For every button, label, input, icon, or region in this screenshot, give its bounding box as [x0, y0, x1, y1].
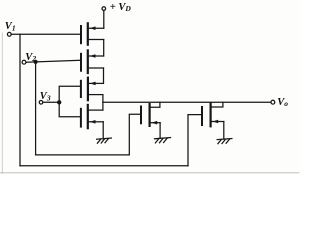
transistor T3 source arrow [90, 82, 96, 86]
wire T4 to ground [102, 122, 104, 139]
wire T2-T3 link [103, 68, 105, 83]
svg-text:V2: V2 [25, 52, 36, 63]
svg-text:+ VD: + VD [110, 2, 132, 13]
wire output node link T3-T4 [102, 95, 104, 111]
transistor T4 channel bar [87, 105, 89, 128]
wire T1 drain lead [89, 27, 104, 29]
ground G1 [97, 138, 112, 143]
wire T2 drain lead [89, 55, 104, 57]
transistor T2 source arrow [90, 54, 96, 58]
node V2 input terminal [22, 60, 26, 64]
node +VD supply terminal [102, 7, 106, 11]
wire V1 lead to T1 gate [11, 33, 80, 35]
node V1 input terminal [7, 32, 11, 36]
transistor T1 source arrow [90, 26, 96, 30]
transistor T6 channel bar [210, 104, 212, 127]
svg-text:V1: V1 [5, 21, 16, 32]
transistor T2 gate bar [80, 54, 82, 71]
wire T3 drain lead [89, 82, 103, 84]
transistor T5 source arrow [151, 121, 157, 125]
wire T3 source lead [89, 94, 103, 96]
wire T4 source lead [89, 121, 103, 123]
wire V1 rise to T6 gate [188, 115, 201, 166]
transistor T6 source arrow [212, 120, 218, 124]
transistor T1 channel bar [87, 23, 89, 44]
node V3 input terminal [39, 101, 43, 105]
transistor T4 gate bar [80, 109, 82, 127]
wire T1-T2 link [103, 40, 105, 57]
wire V3 lead [43, 101, 59, 103]
wire T6 source lead [212, 121, 224, 123]
wire T4 drain lead [89, 109, 103, 111]
page scan left border [1, 33, 3, 174]
transistor T5 gate bar [140, 107, 142, 124]
wire T5 source lead [151, 122, 160, 124]
node Vo output terminal [271, 100, 275, 104]
wire V1 bottom run [20, 165, 188, 167]
wire T5 drain lead [151, 102, 160, 107]
page scan bottom border [0, 172, 299, 174]
transistor T1 gate bar [80, 26, 82, 43]
transistor T6 gate bar [201, 107, 203, 125]
wire V1 left drop [19, 34, 21, 166]
wire VD drop to T1 drain [103, 11, 105, 29]
wire T6 to ground [223, 122, 225, 139]
svg-text:Vo: Vo [277, 97, 288, 108]
ground G2 [155, 138, 171, 143]
wire T2 source lead [89, 67, 104, 69]
node junction dot V3 [57, 100, 61, 104]
wire V2 bottom run [36, 154, 130, 156]
transistor T3 gate bar [80, 81, 82, 97]
wire V2 lead to T2 gate [26, 60, 80, 62]
transistor T3 channel bar [87, 78, 89, 101]
wire V3 up branch to T3 gate [59, 86, 80, 102]
wire output rail [103, 101, 271, 103]
ground G3 [217, 139, 232, 144]
transistor T2 channel bar [87, 50, 89, 73]
wire V3 down branch to T4 gate [59, 102, 80, 116]
wire T6 drain lead [212, 102, 223, 107]
wire V2 rise to T5 gate [129, 114, 140, 155]
wire V2 drop [35, 62, 37, 155]
wire T1 source lead [89, 39, 104, 41]
transistor T5 channel bar [149, 104, 151, 126]
wire T5 to ground [159, 123, 161, 138]
transistor T4 source arrow [90, 120, 96, 124]
svg-text:V3: V3 [40, 91, 51, 102]
node junction dot V2 [34, 60, 38, 64]
